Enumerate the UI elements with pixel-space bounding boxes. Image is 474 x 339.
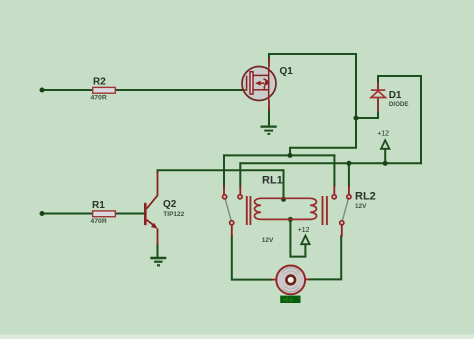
svg-text:Q1: Q1 <box>280 66 294 77</box>
svg-text:470R: 470R <box>91 218 107 225</box>
svg-text:RL2: RL2 <box>355 190 376 202</box>
svg-text:R1: R1 <box>92 200 105 211</box>
svg-text:R2: R2 <box>93 77 106 88</box>
svg-text:+12: +12 <box>377 130 389 137</box>
svg-text:12V: 12V <box>355 203 367 210</box>
svg-text:D1: D1 <box>389 90 402 101</box>
svg-text:+0.0: +0.0 <box>283 298 293 304</box>
svg-text:Q2: Q2 <box>163 199 177 210</box>
svg-text:+12: +12 <box>298 227 310 234</box>
svg-text:DIODE: DIODE <box>389 101 409 108</box>
svg-text:TIP122: TIP122 <box>163 211 184 218</box>
svg-text:470R: 470R <box>91 94 107 101</box>
svg-text:12V: 12V <box>262 237 274 244</box>
svg-text:RL1: RL1 <box>262 174 283 186</box>
